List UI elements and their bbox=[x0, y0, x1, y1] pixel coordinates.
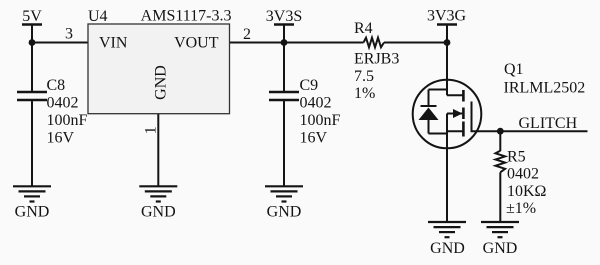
resistor R4 bbox=[364, 38, 385, 48]
svg-text:100nF: 100nF bbox=[300, 112, 341, 129]
svg-text:R5: R5 bbox=[507, 149, 526, 166]
power symbol 5V bar bbox=[22, 23, 42, 25]
junction node GLITCH/R5 bbox=[497, 128, 504, 135]
svg-text:0402: 0402 bbox=[300, 95, 332, 112]
ground (under Q1 source) bbox=[428, 222, 466, 237]
Q1 body diode triangle bbox=[419, 108, 439, 121]
wire 3V3G vertical / Q1 drain bbox=[446, 25, 448, 96]
svg-text:3V3S: 3V3S bbox=[266, 8, 302, 25]
svg-text:AMS1117-3.3: AMS1117-3.3 bbox=[141, 8, 232, 25]
svg-text:GLITCH: GLITCH bbox=[519, 115, 578, 132]
svg-text:7.5: 7.5 bbox=[354, 68, 374, 85]
svg-text:2: 2 bbox=[243, 26, 251, 43]
svg-text:GND: GND bbox=[430, 240, 465, 257]
svg-text:1: 1 bbox=[143, 126, 160, 134]
junction node 3V3G bbox=[444, 39, 451, 46]
wire Q1 source to ground bbox=[446, 114, 448, 224]
svg-text:10KΩ: 10KΩ bbox=[507, 183, 547, 200]
svg-text:3: 3 bbox=[65, 26, 73, 43]
wire R5 top bbox=[499, 131, 501, 151]
svg-text:100nF: 100nF bbox=[47, 112, 88, 129]
Q1 source internal connection bbox=[447, 130, 463, 132]
svg-text:GND: GND bbox=[15, 204, 50, 221]
svg-text:0402: 0402 bbox=[47, 95, 79, 112]
capacitor C8 bbox=[17, 92, 47, 100]
wire C8 bottom to ground bbox=[31, 100, 33, 187]
junction node 3V3S bbox=[281, 39, 288, 46]
svg-text:R4: R4 bbox=[354, 20, 373, 37]
svg-text:VOUT: VOUT bbox=[174, 35, 219, 52]
svg-text:1%: 1% bbox=[354, 85, 375, 102]
svg-text:Q1: Q1 bbox=[504, 61, 524, 78]
svg-text:GND: GND bbox=[267, 204, 302, 221]
wire VOUT pin 2 to 3V3S and R4 bbox=[230, 42, 364, 44]
svg-text:±1%: ±1% bbox=[506, 200, 536, 217]
resistor R5 bbox=[496, 151, 506, 173]
wire R4 to 3V3G node bbox=[384, 42, 447, 44]
svg-text:0402: 0402 bbox=[507, 166, 539, 183]
svg-text:3V3G: 3V3G bbox=[427, 8, 467, 25]
ground (under C9) bbox=[265, 186, 303, 201]
svg-text:5V: 5V bbox=[22, 8, 42, 25]
Q1 channel bar segments bbox=[462, 90, 465, 137]
svg-text:U4: U4 bbox=[88, 8, 108, 25]
Q1 body diode bbox=[421, 90, 448, 134]
Q1 body arrow head bbox=[453, 109, 463, 118]
ground (under C8) bbox=[13, 186, 51, 201]
wire C9 bottom to ground bbox=[283, 100, 285, 187]
Q1 gate bar and gate wire to GLITCH bbox=[472, 102, 588, 132]
svg-text:GND: GND bbox=[153, 65, 170, 100]
wire U4 GND pin 1 to ground bbox=[157, 114, 159, 187]
svg-text:C9: C9 bbox=[300, 77, 319, 94]
svg-text:16V: 16V bbox=[47, 130, 75, 147]
svg-text:C8: C8 bbox=[47, 77, 66, 94]
svg-text:16V: 16V bbox=[300, 130, 328, 147]
wire 5V to VIN pin 3 bbox=[32, 42, 89, 44]
power symbol 3V3S bar bbox=[274, 23, 294, 25]
svg-text:ERJB3: ERJB3 bbox=[354, 51, 399, 68]
Q1 body arrow line bbox=[447, 113, 462, 115]
svg-text:GND: GND bbox=[483, 240, 518, 257]
ground (under R5) bbox=[481, 222, 519, 237]
ground (under U4) bbox=[139, 186, 177, 201]
wire R5 bottom to ground bbox=[499, 172, 501, 222]
svg-text:VIN: VIN bbox=[99, 35, 128, 52]
wire 5V vertical bbox=[31, 25, 33, 93]
svg-text:GND: GND bbox=[141, 204, 176, 221]
wire 3V3S vertical bbox=[283, 25, 285, 93]
junction node 5V/VIN bbox=[29, 39, 36, 46]
power symbol 3V3G bar bbox=[437, 23, 457, 25]
Q1 drain internal connection bbox=[447, 94, 463, 96]
transistor Q1 body circle bbox=[413, 80, 482, 149]
IC U4 AMS1117-3.3 regulator body bbox=[88, 24, 230, 114]
capacitor C9 bbox=[269, 92, 299, 100]
svg-text:IRLML2502: IRLML2502 bbox=[504, 80, 586, 97]
